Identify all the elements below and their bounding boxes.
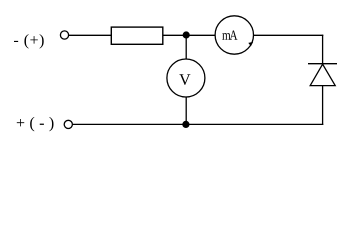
label - (+) xyxy=(14,34,44,49)
wire node A to ammeter U1 xyxy=(186,34,215,36)
label + ( - ) xyxy=(17,117,54,132)
wire diode D1 to bottom right corner xyxy=(322,86,324,125)
terminal T1 (top left, open circle) xyxy=(60,31,68,39)
wire node A down to voltmeter U2 xyxy=(185,35,187,60)
ammeter U1 (mA meter) xyxy=(215,16,253,54)
node B (bottom junction dot) xyxy=(182,121,189,128)
wire top right corner down to diode D1 xyxy=(322,35,324,64)
diode D1 cathode bar xyxy=(308,63,337,65)
wire voltmeter U2 down to node B xyxy=(185,97,187,125)
terminal T2 (bottom left, open circle) xyxy=(64,120,72,128)
resistor R1 xyxy=(111,27,163,44)
wire terminal T2 to node B xyxy=(73,123,186,125)
label V xyxy=(179,74,190,85)
wire terminal T1 to resistor R1 xyxy=(69,34,111,36)
wire resistor R1 to node A xyxy=(163,34,183,36)
label mA xyxy=(222,30,237,39)
voltmeter U2 (V meter) xyxy=(167,59,205,97)
wire node B to bottom right corner xyxy=(186,123,323,125)
diode D1 anode triangle xyxy=(310,64,335,85)
wire ammeter U1 to top right corner xyxy=(254,34,324,36)
ammeter needle arrow xyxy=(248,42,253,46)
node A (top junction dot) xyxy=(183,31,190,38)
